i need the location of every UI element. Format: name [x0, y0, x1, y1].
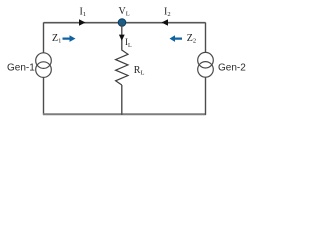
wire left vertical upper: [43, 23, 45, 54]
wire center vertical from node to resistor: [121, 23, 123, 51]
svg-text:Gen-2: Gen-2: [218, 63, 246, 74]
svg-text:IL: IL: [125, 37, 132, 49]
wire left vertical lower: [43, 77, 45, 114]
current arrow I1: [79, 19, 86, 26]
svg-text:I2: I2: [164, 7, 171, 19]
svg-text:I1: I1: [80, 7, 87, 19]
svg-text:Z2: Z2: [187, 33, 196, 45]
wire right vertical lower: [205, 77, 207, 115]
svg-text:VL: VL: [119, 6, 130, 18]
blue arrow Z2 direction: [170, 35, 183, 42]
generator Gen-2 symbol: [198, 52, 214, 77]
svg-text:Gen-1: Gen-1: [7, 63, 35, 74]
wire right vertical upper: [205, 23, 207, 53]
blue arrow Z1 direction: [63, 35, 76, 42]
generator Gen-1 symbol: [36, 53, 52, 78]
svg-text:RL: RL: [134, 65, 145, 77]
current arrow IL: [119, 35, 125, 41]
resistor RL zigzag: [116, 50, 128, 85]
wire bottom bus: [43, 113, 206, 115]
wire top bus: [44, 22, 206, 24]
wire center vertical from resistor to bottom bus: [121, 85, 123, 115]
node VL junction dot: [118, 19, 126, 27]
svg-text:Z1: Z1: [52, 33, 61, 45]
current arrow I2: [162, 19, 169, 26]
